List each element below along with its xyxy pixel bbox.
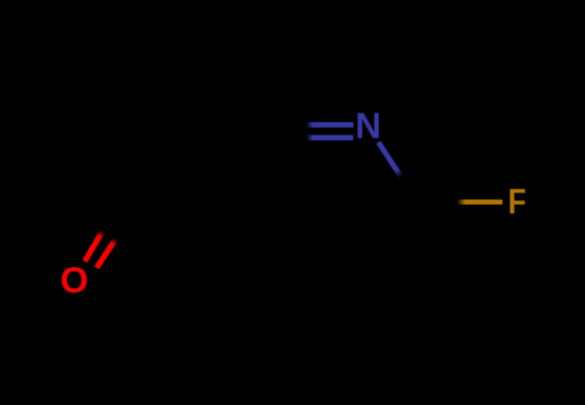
- atom label F (fluorine): [508, 182, 526, 221]
- bond C6-F, gold half: [458, 199, 503, 204]
- bond C2=N double bond, blue half, upper line: [307, 122, 354, 127]
- svg-text:O: O: [60, 259, 88, 300]
- bond C=O double bond, red half, left line: [85, 231, 103, 261]
- bond N-C6 single bond, blue half: [378, 142, 400, 176]
- bond C=O double bond, red half, right line: [97, 239, 116, 268]
- svg-text:F: F: [508, 182, 526, 221]
- bond C2=N double bond, blue half, lower line: [307, 135, 354, 140]
- svg-text:N: N: [355, 105, 381, 146]
